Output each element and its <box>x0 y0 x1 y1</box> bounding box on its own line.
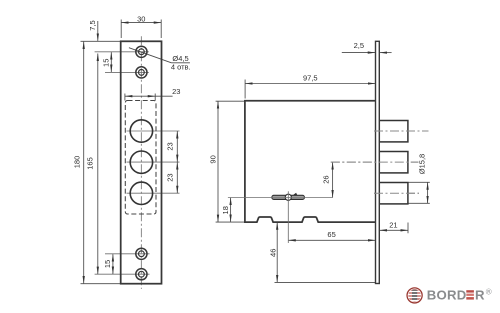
svg-text:21: 21 <box>389 220 397 229</box>
svg-text:97,5: 97,5 <box>303 73 318 82</box>
svg-text:18: 18 <box>221 206 230 214</box>
svg-text:46: 46 <box>269 249 278 257</box>
svg-text:BORD: BORD <box>427 288 467 303</box>
svg-text:23: 23 <box>165 142 174 150</box>
svg-text:7,5: 7,5 <box>88 20 97 30</box>
svg-text:15: 15 <box>103 260 112 268</box>
svg-text:R: R <box>475 288 485 303</box>
svg-text:26: 26 <box>322 175 331 183</box>
svg-text:Ø15,8: Ø15,8 <box>418 154 427 174</box>
svg-text:65: 65 <box>327 230 335 239</box>
svg-text:180: 180 <box>73 156 82 169</box>
svg-text:30: 30 <box>137 14 145 23</box>
svg-text:23: 23 <box>172 87 180 96</box>
svg-text:23: 23 <box>165 173 174 181</box>
svg-text:Ø4,5: Ø4,5 <box>172 54 188 63</box>
svg-text:15: 15 <box>101 59 110 67</box>
svg-text:4 отв.: 4 отв. <box>171 63 191 72</box>
svg-text:165: 165 <box>86 157 95 170</box>
svg-text:90: 90 <box>209 155 218 163</box>
svg-text:2,5: 2,5 <box>354 41 364 50</box>
svg-text:®: ® <box>486 287 492 296</box>
